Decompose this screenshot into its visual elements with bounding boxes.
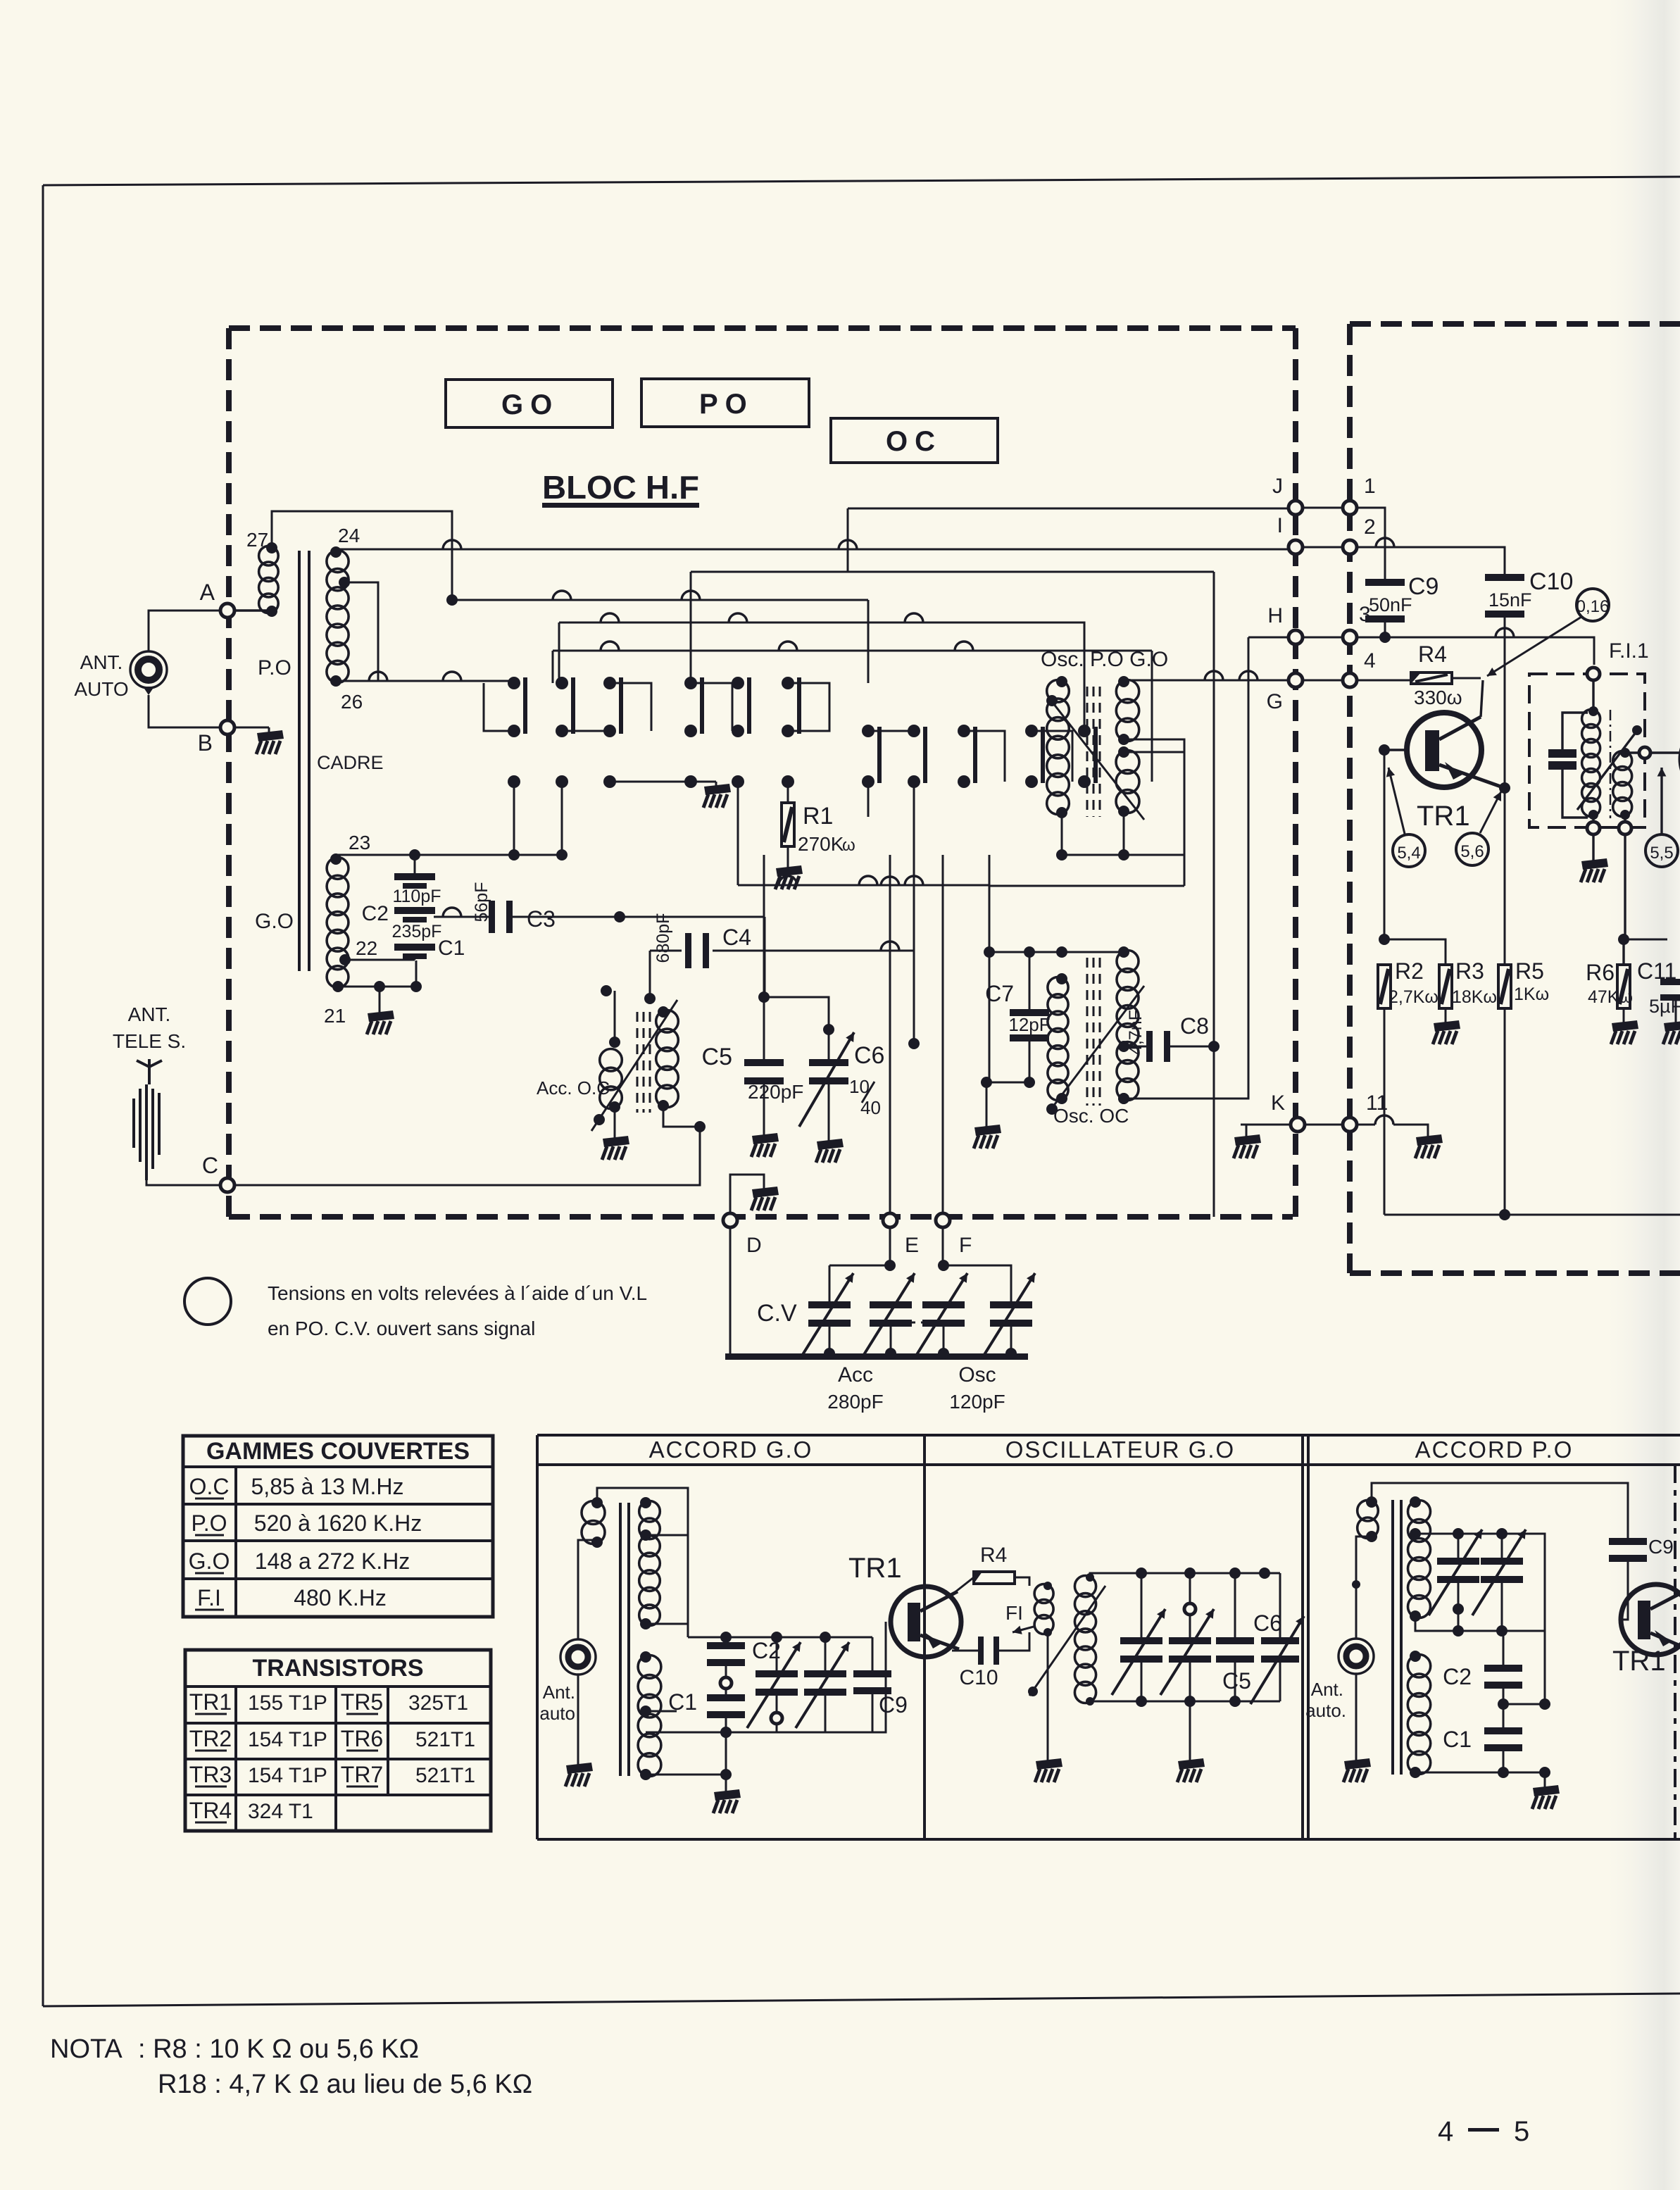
- svg-text:TR5: TR5: [341, 1689, 383, 1715]
- accord-po top link: [1372, 1483, 1628, 1535]
- ground at switch row: [703, 784, 731, 808]
- svg-text:F.I.1: F.I.1: [1609, 639, 1649, 663]
- NOTA text line 1: [50, 2034, 419, 2064]
- wire 3 bus H right: [1357, 628, 1594, 665]
- svg-text:270K: 270K: [798, 833, 844, 855]
- osc-go big coil: [1074, 1573, 1096, 1706]
- svg-text:B: B: [198, 730, 213, 756]
- accord-go primary coil: [582, 1497, 605, 1548]
- wire Osc OC top left riser: [984, 886, 995, 1082]
- wire C8 bus: [1118, 1041, 1214, 1052]
- accord-po primary link: [1352, 1537, 1372, 1589]
- wire C3 bus: [434, 908, 765, 922]
- svg-text:480 K.Hz: 480 K.Hz: [294, 1585, 387, 1610]
- Acc O.C core (dashed): [637, 1012, 650, 1113]
- wire TR1 emitter to x2137: [1499, 782, 1510, 794]
- wire bus y1725 right: [1384, 1209, 1680, 1220]
- node B: [198, 720, 234, 756]
- svg-text:235pF: 235pF: [392, 922, 442, 941]
- osc-go C10: [952, 1632, 1029, 1689]
- ground under C6: [816, 1139, 844, 1163]
- label 23: [349, 832, 370, 853]
- svg-text:5,6: 5,6: [1460, 842, 1484, 861]
- CADRE label: [317, 752, 384, 773]
- coil Osc PO/GO primary: [1047, 676, 1070, 818]
- wire bus H: [1248, 637, 1296, 639]
- wire Osc OC secondary bottom: [1118, 1093, 1129, 1104]
- svg-text:C9: C9: [879, 1692, 908, 1717]
- TRANSISTORS row 1: [189, 1689, 468, 1715]
- label 22: [356, 937, 377, 959]
- node K: [1271, 1091, 1305, 1132]
- wire bus I: [336, 540, 1296, 549]
- svg-text:TR1: TR1: [189, 1689, 232, 1715]
- voltage 0,16: [1487, 589, 1609, 676]
- coil 27 (P.O antenna primary): [246, 529, 278, 617]
- capacitor C8 (4,7nF): [1126, 1010, 1209, 1062]
- accord-go secondary upper: [639, 1497, 660, 1629]
- note circle: [184, 1278, 231, 1325]
- wire C to OC coil: [235, 1127, 700, 1185]
- Osc 120pF label: [949, 1363, 1005, 1413]
- svg-text:GO: GO: [501, 389, 559, 420]
- svg-text:ACCORD P.O: ACCORD P.O: [1415, 1437, 1574, 1463]
- Acc O.C tuning arrow: [591, 1000, 677, 1131]
- TRANSISTORS table title: [252, 1655, 423, 1682]
- accord-go antenna wires: [578, 1540, 597, 1765]
- wire ANT.AUTO to A: [149, 611, 227, 651]
- svg-text:C6: C6: [854, 1042, 884, 1069]
- accord-go wire to ground2: [646, 1774, 726, 1776]
- capacitor C2 (110pF): [362, 855, 442, 941]
- variable capacitor CV-osc 2: [982, 1273, 1035, 1359]
- svg-text:FI: FI: [1005, 1602, 1023, 1624]
- svg-text:TR1: TR1: [848, 1553, 902, 1584]
- svg-text:Osc. OC: Osc. OC: [1053, 1105, 1129, 1127]
- F.I.1 core: [1610, 710, 1612, 818]
- svg-text:TR7: TR7: [341, 1762, 383, 1787]
- wire switch hooks bank2: [868, 731, 1072, 782]
- svg-text:A: A: [200, 580, 215, 605]
- F.I.1 dashed box: [1529, 674, 1645, 827]
- capacitor C1 (235pF): [394, 937, 465, 960]
- GAMMES table title: [206, 1438, 470, 1465]
- svg-text:TR1: TR1: [1417, 801, 1470, 832]
- variable capacitor CV-acc 1: [800, 1273, 853, 1359]
- wire switch hooks bank1: [484, 683, 829, 731]
- svg-text:NOTA: NOTA: [50, 2034, 123, 2064]
- svg-text:21: 21: [324, 1005, 346, 1027]
- TRANSISTORS table frame: [185, 1650, 491, 1831]
- accord-po bottom bus: [1415, 1767, 1550, 1778]
- osc-go R4: [951, 1544, 1029, 1596]
- GAMMES row P.O: [192, 1510, 422, 1536]
- svg-text:2: 2: [1364, 515, 1376, 539]
- PO band box: [641, 379, 809, 427]
- node 1: [1343, 475, 1376, 515]
- ACCORD P.O right divider: [1674, 1465, 1676, 1839]
- ground under R3: [1433, 1020, 1460, 1044]
- capacitor C3 (56pF): [472, 882, 556, 933]
- svg-text:12pF: 12pF: [1008, 1014, 1050, 1035]
- wire C4 right drop: [908, 951, 920, 1049]
- svg-text:154 T1P: 154 T1P: [248, 1728, 327, 1751]
- wire C5 column: [758, 855, 770, 1059]
- svg-text:GAMMES COUVERTES: GAMMES COUVERTES: [206, 1438, 470, 1465]
- transistor TR1: [1379, 680, 1505, 788]
- resistor R3 18K: [1439, 958, 1497, 1022]
- svg-text:C7: C7: [985, 981, 1014, 1006]
- node A: [200, 580, 272, 618]
- accord-po TR1: [1621, 1584, 1680, 1655]
- wire C4 bus: [650, 941, 914, 951]
- wire bus y852: [446, 591, 868, 683]
- accord-po core: [1391, 1500, 1403, 1775]
- note text line1: [268, 1282, 647, 1304]
- Osc OC tuning arrow: [1046, 986, 1144, 1115]
- svg-text:J: J: [1272, 475, 1283, 498]
- svg-text:ANT.: ANT.: [128, 1003, 171, 1025]
- svg-text:TRANSISTORS: TRANSISTORS: [252, 1655, 423, 1682]
- accord-po antenna ground: [1343, 1758, 1371, 1782]
- wire bus G: [1124, 671, 1296, 680]
- TR1 label: [1417, 801, 1470, 832]
- svg-text:: R8 : 10 K Ω ou 5,6 K: : R8 : 10 K Ω ou 5,6 KΩ: [138, 2034, 419, 2064]
- svg-text:TR6: TR6: [341, 1726, 383, 1751]
- Osc. OC label: [1053, 1105, 1129, 1127]
- G.O label: [255, 910, 294, 933]
- svg-text:ACCORD G.O: ACCORD G.O: [649, 1437, 813, 1463]
- accord-go C9: [853, 1637, 908, 1732]
- ANT. TELE S. antenna: [134, 1059, 162, 1180]
- page right edge shading: [1598, 0, 1680, 2190]
- ground under R6: [1611, 1020, 1638, 1044]
- svg-text:C10: C10: [1529, 568, 1573, 595]
- svg-text:C9: C9: [1648, 1536, 1674, 1558]
- svg-text:Acc: Acc: [838, 1363, 873, 1387]
- svg-text:R6: R6: [1586, 960, 1615, 985]
- wire Acc O.C primary top: [601, 985, 615, 1042]
- svg-text:R1: R1: [803, 803, 833, 830]
- accord-po Ant. auto label: [1305, 1679, 1346, 1721]
- accord-po TR1 label: [1612, 1646, 1666, 1677]
- Acc 280pF label: [827, 1363, 883, 1413]
- svg-text:C2: C2: [1443, 1664, 1472, 1689]
- node J: [1272, 475, 1303, 515]
- ANT. TELE S. label: [113, 1003, 186, 1052]
- BLOC H.F title: [542, 469, 699, 508]
- wire bus y812: [691, 572, 1214, 683]
- svg-text:325T1: 325T1: [408, 1691, 468, 1715]
- svg-text:148 a 272 K.Hz: 148 a 272 K.Hz: [255, 1548, 410, 1574]
- resistor R6 47K: [1586, 960, 1633, 1022]
- wire col8 drop: [913, 782, 915, 951]
- accord-po primary coil: [1358, 1496, 1379, 1542]
- wire Osc PO/GO upper tap: [1124, 739, 1184, 855]
- ground at B: [256, 730, 284, 754]
- capacitor C7 (12pF): [985, 952, 1051, 1082]
- svg-text:R2: R2: [1395, 958, 1424, 984]
- wire col2 drop: [561, 782, 563, 855]
- switch bank 1 contacts: [508, 677, 801, 737]
- svg-text:24: 24: [338, 525, 360, 546]
- wire E drop: [889, 1228, 891, 1265]
- svg-text:5,4: 5,4: [1397, 844, 1420, 863]
- svg-text:22: 22: [356, 937, 377, 959]
- svg-text:R18 : 4,7 K Ω au lieu de: R18 : 4,7 K Ω au lieu de 5,6 KΩ: [158, 2070, 532, 2099]
- svg-text:I: I: [1277, 514, 1283, 537]
- C.V bottom bar: [725, 1353, 1028, 1360]
- svg-text:520 à 1620 K.Hz: 520 à 1620 K.Hz: [254, 1510, 422, 1536]
- svg-text:R3: R3: [1455, 958, 1484, 984]
- svg-text:1Kω: 1Kω: [1514, 984, 1549, 1004]
- svg-text:680pF: 680pF: [653, 913, 673, 963]
- osc-go TR1: [891, 1587, 961, 1657]
- accord-go bus top: [688, 1632, 872, 1643]
- svg-text:TR3: TR3: [189, 1762, 232, 1787]
- osc-go varcap C5b: [1160, 1573, 1214, 1701]
- accord-po sec lower: [1408, 1651, 1430, 1778]
- wire ANT.AUTO to B: [149, 695, 227, 727]
- svg-text:OSCILLATEUR G.O: OSCILLATEUR G.O: [1005, 1437, 1235, 1463]
- svg-text:R4: R4: [1418, 642, 1447, 667]
- node I: [1277, 514, 1303, 554]
- accord-po antenna wires: [1355, 1584, 1358, 1760]
- wire vertical x1724: [1208, 572, 1220, 1217]
- accord-go bottom bus: [646, 1622, 886, 1738]
- svg-text:ω: ω: [842, 836, 855, 855]
- svg-text:324 T1: 324 T1: [248, 1800, 313, 1823]
- C.V box left: [729, 1228, 732, 1353]
- right block dashed border: [1350, 324, 1680, 1273]
- K wire grounds: [1234, 1115, 1443, 1158]
- wire 27 top link: [272, 511, 452, 600]
- TRANSISTORS row 4: [189, 1798, 313, 1823]
- BLOC H.F dashed border: [229, 328, 1296, 1220]
- TRANSISTORS row 3: [189, 1762, 475, 1787]
- accord-po varcap1: [1429, 1529, 1482, 1615]
- svg-text:G.O: G.O: [189, 1548, 230, 1574]
- accord-go antenna ground: [565, 1763, 593, 1787]
- wire Osc PO/GO bottoms: [989, 811, 1184, 886]
- svg-text:C6: C6: [1253, 1610, 1282, 1636]
- svg-text:G.O: G.O: [255, 910, 294, 933]
- svg-text:C10: C10: [959, 1666, 998, 1689]
- wire Acc O.C secondary bottom: [663, 1106, 706, 1132]
- NOTA text line 2: [158, 2070, 532, 2099]
- wire col5 drop: [737, 782, 739, 885]
- C.V label: [757, 1300, 797, 1327]
- ACCORD P.O title: [1415, 1437, 1574, 1463]
- GO band box: [446, 380, 613, 427]
- svg-text:Ant.: Ant.: [1311, 1679, 1343, 1700]
- coil Acc O.C secondary: [656, 1006, 679, 1111]
- ground under R1: [775, 865, 803, 889]
- svg-text:Tensions en volts relevées à l: Tensions en volts relevées à l´aide d´un…: [268, 1282, 647, 1304]
- accord-go C1: [668, 1689, 745, 1738]
- switch middle row: [508, 775, 794, 788]
- resistor R5 1K: [1498, 958, 1549, 1215]
- svg-text:ANT.: ANT.: [80, 651, 123, 673]
- wire vertical x1773: [1129, 637, 1248, 1099]
- Osc PO/GO core (dashed): [1087, 687, 1100, 817]
- svg-text:C4: C4: [722, 925, 751, 950]
- wire C4 left drop: [644, 951, 656, 1004]
- capacitor C6 (10/40 trimmer): [799, 1032, 884, 1127]
- svg-text:1: 1: [1364, 475, 1376, 498]
- Osc OC core (dashed): [1087, 958, 1100, 1106]
- svg-text:521T1: 521T1: [415, 1728, 475, 1751]
- node G: [1267, 673, 1303, 713]
- wire P.O tap: [344, 582, 378, 681]
- wire B to ground: [235, 727, 269, 732]
- wire bus y1257: [738, 876, 989, 885]
- svg-text:23: 23: [349, 832, 370, 853]
- svg-text:C2: C2: [362, 902, 389, 925]
- wire Osc OC top: [989, 946, 1124, 958]
- CV gang link dashes: [908, 1322, 929, 1324]
- svg-text:280pF: 280pF: [827, 1391, 883, 1413]
- resistor R1 270K: [782, 782, 855, 868]
- wire E riser: [881, 855, 899, 1213]
- accord-po mid bus: [1415, 1609, 1545, 1637]
- ground under F.I.1: [1581, 834, 1608, 882]
- accord-go secondary lower: [638, 1651, 661, 1780]
- wire C5 to ground: [763, 1084, 765, 1135]
- GAMMES row G.O: [189, 1548, 410, 1574]
- wire F.I.1 secondary out: [1625, 747, 1680, 758]
- accord-po sec upper: [1408, 1496, 1431, 1622]
- svg-text:AUTO: AUTO: [74, 678, 128, 700]
- ground near D: [751, 1187, 779, 1210]
- svg-text:O.C: O.C: [189, 1474, 230, 1499]
- wire J-1: [1303, 507, 1343, 509]
- node 3: [1343, 603, 1371, 644]
- sub-schematic frame: [537, 1435, 1680, 1839]
- accord-go varcap2: [796, 1637, 849, 1732]
- accord-go Ant. auto label: [539, 1682, 575, 1724]
- svg-text:56pF: 56pF: [472, 882, 491, 922]
- coil Osc PO/GO secondary upper: [1116, 676, 1139, 745]
- wire R2R3 link: [1384, 939, 1446, 965]
- svg-text:P.O: P.O: [258, 656, 292, 680]
- wire D riser: [730, 1175, 764, 1213]
- osc-go FI label: [1005, 1602, 1034, 1634]
- P.O label: [258, 656, 292, 680]
- svg-text:C5: C5: [1222, 1668, 1251, 1694]
- osc-go varcap C5a: [1112, 1573, 1165, 1701]
- svg-text:C3: C3: [527, 906, 556, 932]
- wire 22 to C1: [345, 959, 415, 961]
- F.I.1 secondary coil: [1613, 748, 1632, 820]
- label 26: [341, 691, 363, 713]
- accord-po antenna: [1339, 1639, 1374, 1674]
- variable capacitor CV-acc 2: [861, 1273, 915, 1359]
- accord-go varcap1: [747, 1637, 801, 1732]
- osc-go top bus: [1090, 1568, 1280, 1579]
- capacitor C5 (220pF): [702, 1044, 804, 1103]
- ground under Acc O.C: [602, 1107, 629, 1160]
- OSCILLATEUR G.O title: [1005, 1437, 1235, 1463]
- svg-text:155 T1P: 155 T1P: [248, 1691, 327, 1715]
- node 11: [1343, 1091, 1388, 1132]
- GAMMES table frame: [183, 1436, 493, 1617]
- F.I.1 top terminal: [1587, 668, 1600, 680]
- svg-text:TR4: TR4: [189, 1798, 232, 1823]
- resistor R2 2,7K: [1378, 958, 1438, 1215]
- svg-text:5,85 à 13 M.Hz: 5,85 à 13 M.Hz: [251, 1474, 404, 1499]
- osc-go varcap C6: [1250, 1573, 1304, 1704]
- node D: [723, 1213, 762, 1257]
- capacitor C9 (50nF): [1365, 573, 1438, 637]
- resistor R4 330: [1411, 642, 1462, 708]
- svg-text:C1: C1: [438, 937, 465, 960]
- accord-po ground: [1532, 1772, 1560, 1809]
- svg-text:auto: auto: [539, 1703, 575, 1724]
- svg-text:OC: OC: [886, 426, 942, 457]
- svg-text:0,16: 0,16: [1576, 597, 1610, 616]
- coil P.O (24-26): [327, 546, 350, 687]
- osc-go ground1: [1035, 1632, 1062, 1782]
- svg-text:521T1: 521T1: [415, 1764, 475, 1787]
- capacitor C10 (15nF): [1485, 568, 1573, 637]
- wire 2 to C10: [1357, 538, 1505, 574]
- wire K stub left: [1241, 1124, 1246, 1126]
- wire 4 bus: [1357, 680, 1410, 682]
- ground under C5: [751, 1133, 779, 1157]
- wire C6 to ground: [828, 1084, 830, 1141]
- svg-text:C5: C5: [702, 1044, 732, 1070]
- coil Acc O.C primary: [600, 1037, 622, 1113]
- accord-go antenna: [560, 1639, 596, 1675]
- accord-po C9: [1609, 1535, 1674, 1620]
- wire bus y924: [553, 642, 1152, 782]
- ACCORD G.O title: [649, 1437, 813, 1463]
- GAMMES row F.I: [195, 1585, 387, 1610]
- svg-text:PO: PO: [699, 389, 754, 420]
- osc-go FI coil: [1034, 1582, 1053, 1637]
- svg-text:40: 40: [860, 1097, 881, 1118]
- svg-text:330ω: 330ω: [1414, 687, 1462, 708]
- svg-text:2,7Kω: 2,7Kω: [1388, 987, 1438, 1007]
- wire col7 drop: [867, 782, 870, 817]
- node E: [883, 1213, 919, 1257]
- OC band box: [831, 418, 998, 463]
- svg-text:26: 26: [341, 691, 363, 713]
- wire C7 bottom: [981, 1077, 1035, 1127]
- wire R4 right: [1452, 677, 1481, 680]
- svg-text:TELE S.: TELE S.: [113, 1030, 186, 1052]
- svg-text:5: 5: [1514, 2116, 1529, 2147]
- wire bus J: [848, 508, 1296, 572]
- svg-text:Ant.: Ant.: [543, 1682, 575, 1703]
- node H: [1267, 604, 1303, 644]
- svg-text:BLOC H.F: BLOC H.F: [542, 469, 699, 506]
- ACCORD/OSC divider dashed: [923, 1465, 926, 1839]
- variable capacitor CV-osc 1: [914, 1273, 967, 1359]
- svg-text:C.V: C.V: [757, 1300, 797, 1327]
- osc-go ground2: [1177, 1701, 1205, 1782]
- wire C3 to C5 node: [764, 917, 766, 997]
- osc-go cap C5: [1216, 1573, 1254, 1701]
- svg-text:50nF: 50nF: [1369, 594, 1412, 615]
- capacitor C11 5uF: [1624, 939, 1680, 1044]
- wire C10 drop: [1504, 618, 1506, 965]
- wire G-4: [1303, 680, 1343, 682]
- svg-text:P.O: P.O: [192, 1510, 227, 1536]
- osc-go TR1 label: [848, 1553, 902, 1584]
- GAMMES row O.C: [189, 1474, 404, 1499]
